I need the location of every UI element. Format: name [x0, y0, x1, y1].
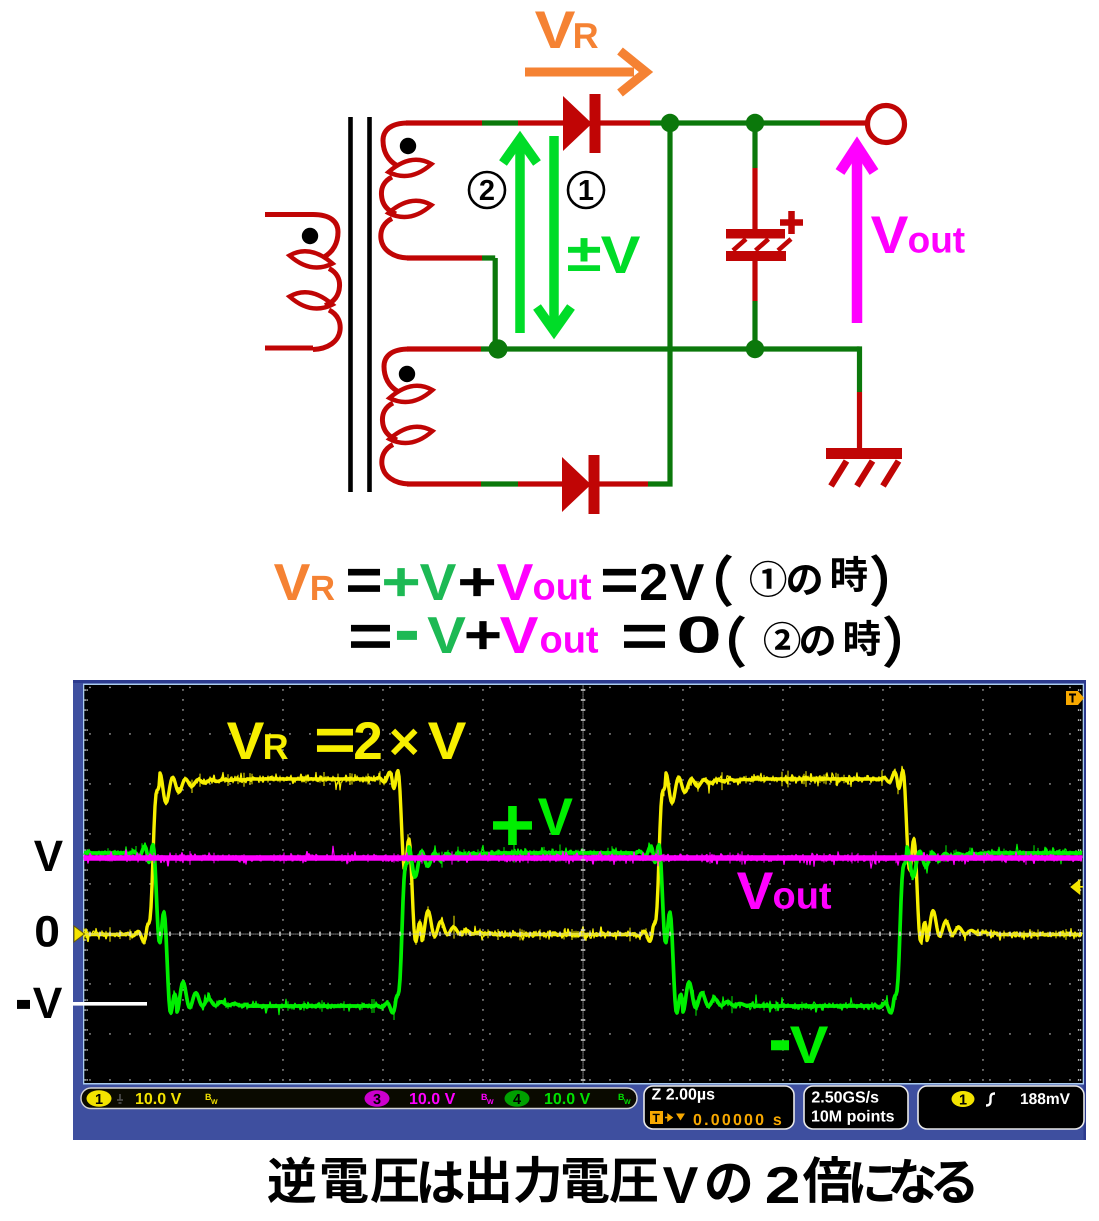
status box: trigger — [918, 1086, 1084, 1129]
svg-text:188mV: 188mV — [1020, 1091, 1071, 1108]
capacitor C1 plus sign — [780, 211, 803, 234]
capacitor C1 (polarized) — [726, 229, 791, 261]
svg-text:0: 0 — [676, 607, 722, 665]
node A (670,123) — [661, 114, 679, 132]
equation line2 japanese (2の時) — [729, 615, 900, 668]
scope label VR=2xV (yellow) — [227, 707, 467, 775]
transformer T1 primary phase dot — [302, 228, 318, 244]
svg-text:0.00000 s: 0.00000 s — [693, 1112, 784, 1129]
svg-text:V: V — [538, 788, 573, 847]
scope label +V (green) — [490, 783, 573, 868]
svg-text:=: = — [621, 603, 669, 671]
svg-text:1: 1 — [95, 1092, 103, 1108]
svg-text:+: + — [490, 783, 535, 868]
svg-text:0: 0 — [34, 908, 60, 957]
svg-text:10.0 V: 10.0 V — [135, 1091, 182, 1108]
oscilloscope outer frame — [73, 680, 1086, 1140]
label Vout (magenta) — [871, 206, 966, 265]
svg-text:Z 2.00µs: Z 2.00µs — [652, 1087, 716, 1104]
waveform Vout (magenta, ch3) — [84, 846, 1082, 868]
svg-text:2.50GS/s: 2.50GS/s — [811, 1090, 879, 1107]
svg-text:V: V — [428, 712, 467, 771]
transformer T1 secondary S2 phase dot — [399, 366, 415, 382]
svg-text:V: V — [663, 1157, 699, 1215]
wire ground branch — [857, 346, 862, 448]
waveform VR (yellow, ch1) — [84, 766, 1082, 945]
transformer T1 secondary winding S2 (bottom) — [382, 349, 433, 484]
svg-text:V: V — [33, 979, 63, 1028]
svg-text:V: V — [427, 607, 466, 665]
svg-text:R: R — [263, 726, 289, 767]
ch1 zero marker (yellow, left edge) — [74, 926, 85, 942]
svg-text:V: V — [497, 554, 534, 612]
trigger level marker (yellow, right edge) — [1072, 881, 1084, 894]
svg-text:V: V — [34, 832, 64, 881]
arrow VR (orange) — [525, 51, 646, 93]
graticule dots — [89, 687, 1070, 1081]
transformer T1 secondary winding S1 (top) — [381, 123, 432, 258]
svg-text:+: + — [464, 605, 502, 666]
svg-text:V: V — [227, 712, 265, 771]
arrow 1 (green down) — [537, 136, 571, 331]
diode D2 — [562, 455, 600, 514]
svg-text:=: = — [348, 603, 393, 671]
svg-text:=: = — [314, 707, 356, 775]
ch1 coupling icon — [117, 1094, 123, 1103]
svg-text:W: W — [624, 1099, 631, 1106]
ch1 badge — [87, 1090, 112, 1107]
svg-text:1: 1 — [578, 175, 594, 207]
svg-text:2: 2 — [765, 1157, 801, 1215]
transformer T1 primary winding — [265, 215, 313, 349]
status bar: channels box — [81, 1088, 637, 1109]
svg-text:-: - — [15, 957, 32, 1041]
svg-text:10.0 V: 10.0 V — [544, 1091, 591, 1108]
svg-text:2: 2 — [479, 175, 495, 207]
wire diode D2 up to node A (vertical x=670) — [599, 123, 673, 487]
wire center tap (S1 bottom lead) — [407, 258, 495, 349]
label plus-minus V (green) — [567, 224, 641, 285]
svg-text:out: out — [908, 220, 966, 261]
wire top secondary to diode D1 — [406, 120, 566, 125]
trigger slope icon — [986, 1094, 995, 1106]
svg-text:3: 3 — [373, 1092, 381, 1108]
svg-text:10M points: 10M points — [811, 1109, 895, 1126]
svg-text:R: R — [310, 569, 335, 608]
svg-text:T: T — [653, 1111, 661, 1125]
svg-text:4: 4 — [513, 1092, 521, 1108]
svg-text:R: R — [573, 15, 599, 56]
left axis label -V — [15, 957, 63, 1041]
arrow Vout (magenta up) — [840, 146, 874, 323]
svg-text:W: W — [211, 1099, 218, 1106]
equation line 2 — [348, 588, 722, 672]
trigger position marker T (orange) — [1066, 691, 1084, 705]
svg-text:V: V — [601, 226, 641, 285]
scope label Vout (magenta) — [737, 862, 832, 921]
svg-text:out: out — [533, 567, 592, 609]
graticule center crosshair (over traces) — [86, 686, 1081, 1083]
waveform +/-V (green, ch4) — [84, 843, 1082, 1020]
node center-tap (498,349) — [488, 339, 507, 358]
svg-text:W: W — [487, 1099, 494, 1106]
node C (755,349) — [746, 340, 764, 358]
svg-text:V: V — [670, 554, 705, 612]
label circled 2 — [469, 172, 505, 208]
arrow 2 (green up) — [503, 139, 537, 333]
oscilloscope screen — [83, 684, 1084, 1085]
equation line 1 — [274, 547, 705, 615]
status box: horizontal scale / trigger time — [644, 1086, 794, 1129]
wire capacitor branch x=755 — [752, 123, 757, 349]
svg-text:±: ± — [567, 224, 602, 283]
svg-text:×: × — [389, 712, 420, 771]
diode D1 — [563, 94, 601, 153]
svg-text:out: out — [540, 620, 599, 662]
svg-text:V: V — [535, 1, 576, 60]
ch3 badge — [365, 1090, 390, 1107]
scope label -V (green) — [768, 992, 828, 1085]
svg-text:1: 1 — [959, 1093, 967, 1109]
svg-text:V: V — [790, 1016, 829, 1075]
svg-text:V: V — [871, 206, 909, 265]
svg-text:-: - — [394, 588, 420, 672]
transformer T1 core — [351, 117, 370, 492]
ch4 badge — [505, 1090, 530, 1107]
output terminal circle — [868, 106, 905, 143]
svg-text:V: V — [737, 862, 774, 921]
svg-text:10.0 V: 10.0 V — [409, 1091, 456, 1108]
wire bottom bus y=349 — [407, 346, 860, 351]
status box: sample rate — [804, 1086, 908, 1129]
svg-text:-: - — [768, 992, 792, 1085]
node B (755,123) — [746, 114, 764, 132]
caption japanese text — [268, 1156, 974, 1215]
svg-text:out: out — [773, 876, 832, 918]
svg-text:2: 2 — [353, 712, 382, 771]
label circled 1 — [568, 172, 604, 208]
svg-text:V: V — [274, 554, 311, 612]
wire diode D1 to node A and output terminal — [600, 120, 867, 125]
pointer line from -V — [65, 1002, 147, 1006]
wire secondary S2 to diode D2 — [407, 481, 565, 486]
transformer T1 secondary S1 phase dot — [400, 138, 416, 154]
equation line1 japanese (1の時) — [716, 554, 887, 607]
svg-text:V: V — [420, 554, 457, 612]
svg-text:V: V — [500, 607, 539, 665]
ground symbol — [826, 454, 902, 487]
label VR (orange) — [535, 1, 599, 60]
